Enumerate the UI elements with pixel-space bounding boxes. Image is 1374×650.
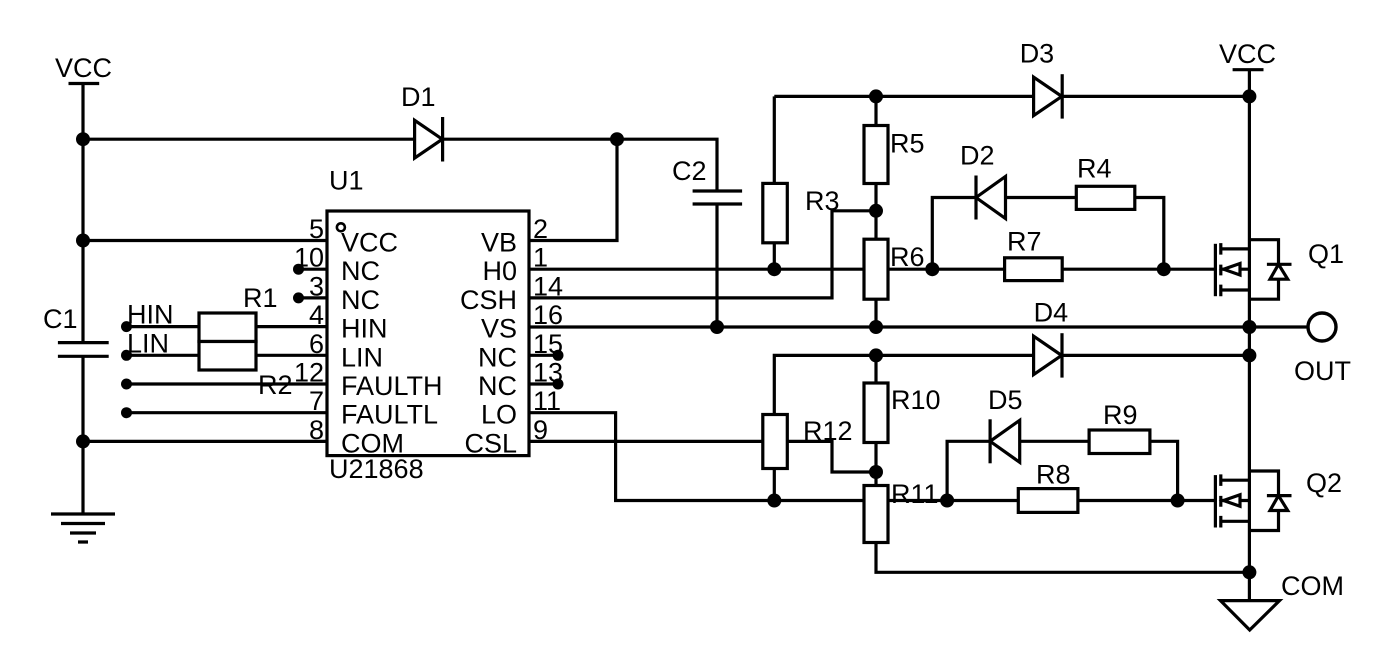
svg-text:5: 5 — [309, 214, 324, 244]
pin 10 NC — [294, 243, 380, 287]
wire R11 bottom to COM row — [876, 543, 1249, 573]
svg-text:R9: R9 — [1103, 400, 1138, 430]
pin 9 CSL — [464, 415, 548, 459]
svg-text:OUT: OUT — [1294, 356, 1351, 386]
wire pin 5 row — [83, 239, 327, 242]
svg-text:VB: VB — [481, 228, 517, 258]
terminal OUT — [1294, 313, 1351, 386]
svg-text:HIN: HIN — [127, 300, 174, 330]
wire VCC to D1 anode — [83, 138, 617, 141]
wire CSL to R10-R11 node — [529, 441, 876, 472]
svg-text:10: 10 — [294, 243, 324, 273]
node D4-main vertical — [1242, 348, 1256, 362]
svg-text:R6: R6 — [890, 242, 925, 272]
node R3-H0 — [767, 262, 781, 276]
svg-text:D5: D5 — [988, 385, 1023, 415]
svg-text:R2: R2 — [258, 370, 293, 400]
svg-text:HIN: HIN — [341, 314, 388, 344]
svg-text:R7: R7 — [1007, 227, 1042, 257]
svg-text:D3: D3 — [1020, 39, 1055, 69]
svg-text:NC: NC — [478, 342, 517, 372]
svg-text:R12: R12 — [803, 416, 853, 446]
svg-text:Q2: Q2 — [1306, 468, 1342, 498]
node R4-R7 gate — [1157, 262, 1171, 276]
svg-text:R5: R5 — [890, 129, 925, 159]
wire D4 row and R12 top — [774, 355, 1249, 414]
diode D5 — [988, 385, 1023, 463]
pin 15 NC — [478, 329, 563, 373]
wire main right vertical — [1248, 70, 1251, 601]
node VCC-D1 — [76, 132, 90, 146]
svg-text:COM: COM — [341, 428, 404, 458]
node LIN terminal — [121, 350, 132, 361]
svg-text:LIN: LIN — [341, 342, 383, 372]
pin 12 FAULTH — [294, 358, 443, 402]
wire R4 to gate node — [1135, 198, 1164, 270]
wire top row R3 to VCC right — [774, 95, 1249, 98]
svg-text:R8: R8 — [1036, 460, 1071, 490]
capacitor C2 — [672, 156, 742, 204]
node R10 top — [869, 348, 883, 362]
svg-text:8: 8 — [309, 415, 324, 445]
wire R10 top column — [874, 355, 877, 383]
svg-text:VS: VS — [481, 314, 517, 344]
svg-text:CSH: CSH — [460, 285, 517, 315]
svg-text:FAULTL: FAULTL — [341, 400, 438, 430]
wire D1 node to pin 2 VB — [529, 139, 617, 240]
wire C2 bottom to VS row — [715, 204, 718, 327]
wire VS row — [529, 325, 1310, 328]
svg-text:2: 2 — [533, 214, 548, 244]
svg-text:D1: D1 — [401, 82, 436, 112]
node HIN terminal — [121, 321, 132, 332]
pin 13 NC — [478, 358, 563, 402]
pin 3 NC — [309, 271, 380, 315]
wire R12 bottom — [773, 469, 776, 501]
node pin 13 NC — [553, 379, 564, 390]
wire R5 bottom to R6 top — [874, 184, 877, 240]
node R9-R8 gate — [1171, 494, 1185, 508]
IC U1 — [327, 166, 529, 485]
wire pin 10 stub — [298, 268, 327, 271]
svg-text:VCC: VCC — [55, 53, 112, 83]
wire D5 to R9 — [1020, 440, 1091, 443]
svg-text:H0: H0 — [482, 256, 517, 286]
node H0-D2-R7 — [925, 262, 939, 276]
svg-text:Q1: Q1 — [1308, 239, 1344, 269]
wire R5 top — [874, 96, 877, 125]
node D1 cathode — [610, 132, 624, 146]
wire H0 row — [529, 268, 1215, 271]
svg-text:FAULTH: FAULTH — [341, 371, 443, 401]
svg-text:R10: R10 — [891, 385, 941, 415]
resistor R5 — [864, 126, 925, 184]
pin 2 VB — [481, 214, 548, 258]
resistor R1 — [199, 283, 278, 370]
wire D1 cathode to C2 top — [617, 139, 717, 191]
wire VCC vertical to C1 top — [81, 84, 84, 343]
pin 11 LO — [481, 386, 561, 430]
pin 14 CSH — [460, 271, 563, 315]
transistor Q1 — [1215, 239, 1344, 299]
transistor Q2 — [1215, 468, 1342, 531]
resistor R3 — [763, 183, 840, 242]
resistor R6 — [864, 239, 925, 299]
svg-text:R3: R3 — [805, 186, 840, 216]
resistor R10 — [864, 383, 941, 443]
wire R1 to pin 4 — [256, 325, 327, 328]
resistor R4 — [1076, 154, 1135, 210]
wire R9 to gate node — [1150, 441, 1178, 500]
node R10-R11 CSL — [869, 465, 883, 479]
svg-text:VCC: VCC — [1219, 39, 1276, 69]
svg-text:CSL: CSL — [464, 428, 517, 458]
power symbol COM — [1221, 571, 1345, 630]
diode D3 — [1020, 39, 1062, 119]
svg-text:LO: LO — [481, 400, 517, 430]
wire R6 bottom to VS — [874, 299, 877, 327]
wire FAULTL row — [127, 411, 328, 414]
svg-text:NC: NC — [478, 371, 517, 401]
svg-text:VCC: VCC — [341, 228, 398, 258]
svg-text:6: 6 — [309, 329, 324, 359]
svg-text:12: 12 — [294, 358, 324, 388]
power symbol VCC (right) — [1219, 39, 1276, 70]
svg-text:D2: D2 — [960, 141, 995, 171]
pin 16 VS — [481, 300, 563, 344]
pin 7 FAULTL — [309, 386, 438, 430]
node R5-R6 CSH — [869, 204, 883, 218]
wire R11 top — [874, 472, 877, 486]
resistor R7 — [1005, 227, 1063, 281]
svg-text:7: 7 — [309, 386, 324, 416]
wire CSH to R5-R6 node — [529, 211, 876, 298]
svg-text:COM: COM — [1281, 571, 1344, 601]
wire HIN to R1 — [127, 325, 200, 328]
pin 6 LIN — [309, 329, 383, 373]
svg-text:3: 3 — [309, 271, 324, 301]
svg-text:NC: NC — [341, 285, 380, 315]
node C2-VS — [710, 320, 724, 334]
node C1-COM — [76, 434, 90, 448]
node VS main vertical — [1242, 320, 1256, 334]
wire pin 15 stub — [529, 354, 558, 357]
node COM main vertical — [1242, 565, 1256, 579]
svg-text:LIN: LIN — [127, 329, 169, 359]
wire R3 bottom to H0 — [773, 243, 776, 269]
node pin 15 NC — [553, 350, 564, 361]
svg-text:4: 4 — [309, 300, 324, 330]
svg-text:U1: U1 — [329, 166, 364, 196]
wire D5 branch up — [947, 441, 990, 500]
svg-text:C2: C2 — [672, 156, 707, 186]
wire R3 top — [773, 96, 776, 183]
node R6-VS — [869, 320, 883, 334]
svg-text:U21868: U21868 — [329, 454, 424, 484]
node VCC pin5 — [76, 234, 90, 248]
capacitor C1 — [43, 304, 109, 356]
wire D2 branch up — [932, 198, 976, 270]
wire C1 bottom to ground — [81, 356, 84, 514]
power symbol VCC (left) — [55, 53, 112, 84]
node pin 10 NC — [293, 264, 304, 275]
pin 1 H0 — [482, 243, 548, 287]
svg-text:NC: NC — [341, 256, 380, 286]
pin 8 COM — [309, 415, 404, 459]
node D3-VCC right — [1242, 89, 1256, 103]
node FAULTH terminal — [121, 379, 132, 390]
diode D2 — [960, 141, 1006, 220]
svg-text:R1: R1 — [243, 283, 278, 313]
wire pin 13 stub — [529, 382, 558, 385]
pin 4 HIN — [309, 300, 388, 344]
resistor R12 — [763, 415, 853, 469]
resistor R8 — [1018, 460, 1078, 513]
svg-text:D4: D4 — [1034, 298, 1069, 328]
resistor R9 — [1089, 400, 1150, 454]
svg-text:C1: C1 — [43, 304, 78, 334]
wire COM row pin 8 — [83, 440, 327, 443]
wire R10 bottom — [874, 443, 877, 473]
ground — [51, 514, 115, 542]
node LO-D5-R8 — [940, 494, 954, 508]
node R12-LO — [767, 494, 781, 508]
wire D2 to R4 — [1006, 196, 1077, 199]
diode D4 — [1034, 298, 1069, 378]
diode D1 — [401, 82, 443, 162]
node R5 top row — [869, 89, 883, 103]
node pin 3 NC — [293, 292, 304, 303]
wire LO run — [529, 413, 1215, 501]
resistor R11 — [864, 479, 939, 543]
node FAULTL terminal — [121, 407, 132, 418]
wire LIN to R1 — [127, 354, 200, 357]
wire R2 FAULTH row — [127, 382, 328, 385]
pin 5 VCC — [309, 214, 398, 258]
wire pin 3 stub — [298, 296, 327, 299]
wire R1 to pin 6 — [256, 354, 327, 357]
svg-text:R11: R11 — [891, 479, 939, 509]
svg-text:R4: R4 — [1077, 154, 1112, 184]
